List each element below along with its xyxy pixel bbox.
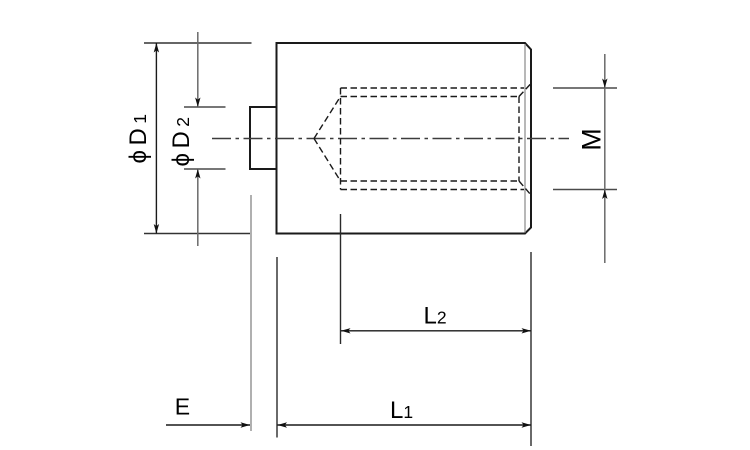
- svg-text:M: M: [577, 128, 607, 151]
- svg-text:L2: L2: [424, 303, 447, 330]
- svg-text:ϕD2: ϕD2: [168, 112, 195, 166]
- svg-text:L1: L1: [390, 397, 413, 424]
- svg-text:E: E: [175, 394, 190, 420]
- svg-text:ϕD1: ϕD1: [125, 109, 152, 163]
